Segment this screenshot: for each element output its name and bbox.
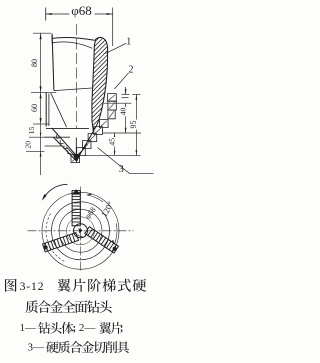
svg-text:; 2—: ; 2—: [73, 322, 97, 334]
drill center axis line: [76, 24, 78, 128]
svg-text:95: 95: [129, 121, 138, 129]
svg-text:3-12: 3-12: [20, 279, 45, 293]
svg-text:45: 45: [107, 138, 116, 146]
left dimension line with arrows: [40, 33, 42, 175]
label 3 leader with shelf: [98, 148, 154, 174]
dim text 45: [109, 137, 116, 146]
svg-text:15: 15: [27, 126, 36, 134]
label 2 leader: [114, 73, 128, 89]
caption line 2: [25, 300, 37, 313]
rotation direction arrow: [43, 184, 68, 199]
svg-text:1—: 1—: [20, 322, 38, 334]
svg-text:80: 80: [30, 59, 39, 67]
wing blade up: [72, 189, 80, 226]
step edge lines lower left: [46, 127, 89, 129]
label 1 leader: [106, 43, 127, 53]
svg-text:φ68: φ68: [71, 3, 92, 18]
left extension lines: [33, 32, 51, 34]
dim line 95: [135, 94, 137, 155]
small step dim arrow: [125, 87, 127, 94]
stepped carbide inserts staircase right: [108, 94, 117, 102]
drill tip V edges: [52, 128, 77, 156]
svg-text:20: 20: [23, 141, 32, 149]
svg-text:1: 1: [126, 36, 131, 47]
wing blade lower-left: [42, 233, 78, 252]
wing blade lower-right: [85, 227, 119, 254]
dim text 40: [120, 107, 127, 117]
hub circle with chisel center: [74, 224, 88, 238]
step section left edge and taper: [45, 92, 47, 126]
bottom view center lines: [28, 230, 134, 232]
dim text 95: [130, 120, 138, 130]
120 degree angle arc: [87, 195, 103, 202]
svg-text:3: 3: [119, 164, 124, 175]
svg-text:;: ;: [120, 322, 124, 334]
svg-text:60: 60: [30, 104, 39, 112]
svg-text:3—: 3—: [28, 341, 46, 353]
dim line 40: [125, 103, 127, 133]
concentric step circles: [42, 192, 119, 269]
drill body shank outline: [52, 34, 54, 91]
dashed step circle arc: [46, 214, 66, 263]
svg-text:2: 2: [129, 65, 134, 76]
dim line 45: [114, 133, 116, 156]
caption line 1: [5, 279, 17, 292]
dimension phi68 with extension bars: [45, 8, 47, 21]
right extension lines: [122, 93, 130, 95]
svg-text:40: 40: [118, 107, 127, 115]
